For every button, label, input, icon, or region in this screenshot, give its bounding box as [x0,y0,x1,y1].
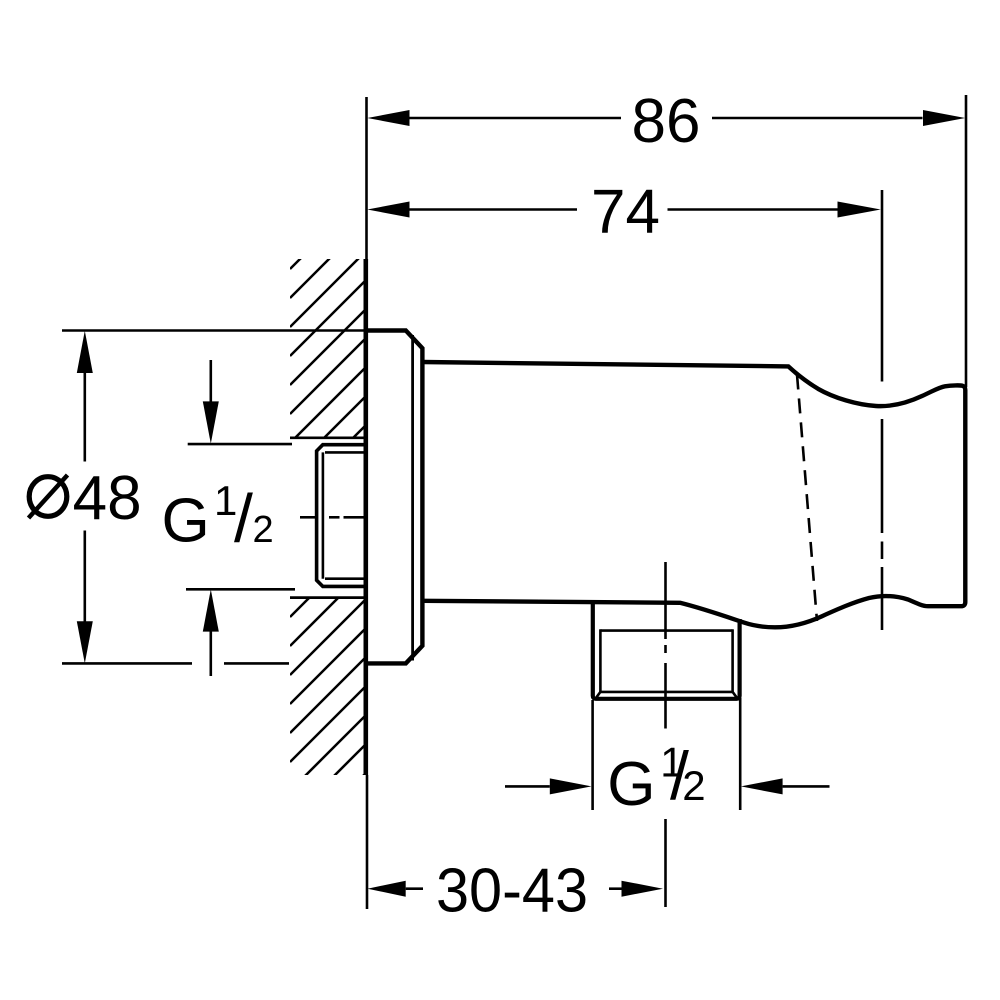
svg-text:G: G [607,750,655,819]
svg-text:86: 86 [632,87,701,156]
svg-text:48: 48 [73,464,142,533]
svg-text:74: 74 [591,178,660,247]
svg-text:2: 2 [682,762,705,809]
svg-text:2: 2 [253,509,274,551]
svg-text:G: G [162,487,210,556]
svg-text:30-43: 30-43 [436,857,588,926]
svg-text:/: / [234,481,253,557]
